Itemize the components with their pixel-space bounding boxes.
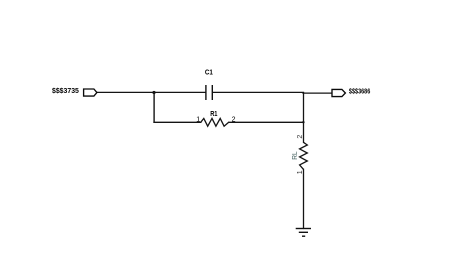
svg-text:2: 2: [297, 135, 304, 139]
svg-text:1: 1: [297, 170, 304, 174]
svg-text:R1: R1: [210, 110, 217, 118]
svg-text:1: 1: [196, 116, 200, 123]
svg-text:RL: RL: [290, 151, 299, 159]
svg-text:2: 2: [232, 117, 236, 124]
svg-text:C1: C1: [205, 69, 213, 77]
svg-text:$$$3735: $$$3735: [52, 86, 79, 95]
svg-text:$$$3686: $$$3686: [349, 86, 370, 95]
